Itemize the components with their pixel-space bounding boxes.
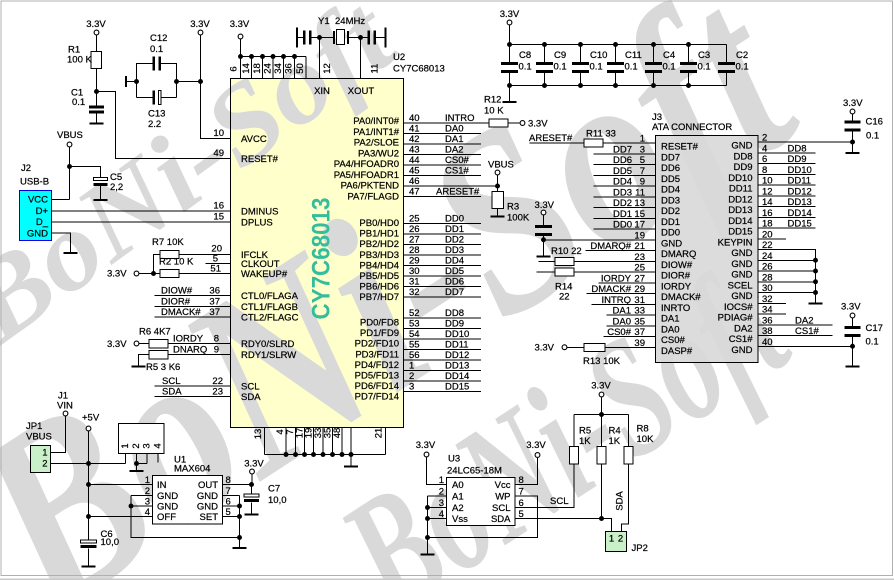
- svg-text:JP2: JP2: [632, 543, 648, 554]
- svg-text:U3: U3: [448, 454, 460, 465]
- resistor R13: [584, 343, 605, 351]
- resistor R5 1K: [570, 447, 579, 465]
- wire cap bank to ground: [509, 86, 511, 102]
- wire R11 to J3 pin1: [603, 142, 656, 144]
- svg-text:R7 10K: R7 10K: [152, 237, 184, 248]
- wire U1 pin6 GND right: [223, 505, 240, 507]
- svg-text:1K: 1K: [609, 436, 621, 447]
- page bottom edge line: [0, 578, 894, 580]
- svg-text:10,0: 10,0: [268, 495, 287, 506]
- junction dots C4: [651, 42, 656, 47]
- junction dots bottom rail: [284, 452, 289, 457]
- wire C15 to pin19 node: [543, 236, 545, 240]
- svg-text:24LC65-18M: 24LC65-18M: [447, 466, 502, 477]
- junction +5V/OFF: [86, 514, 91, 519]
- ground below R3: [491, 216, 505, 218]
- wire crystal to XOUT node: [349, 37, 368, 39]
- pin box lines top: [251, 57, 253, 79]
- svg-text:R10 22: R10 22: [551, 246, 582, 257]
- svg-text:CY7C68013: CY7C68013: [308, 198, 336, 320]
- svg-text:R5: R5: [579, 426, 591, 437]
- resistor R4 1K: [597, 447, 606, 465]
- svg-text:PA6/PKTEND: PA6/PKTEND: [341, 181, 400, 192]
- svg-text:DD9: DD9: [733, 162, 752, 173]
- svg-text:PA1/INT1#: PA1/INT1#: [353, 127, 399, 138]
- svg-text:CS1#: CS1#: [729, 334, 753, 345]
- svg-text:R8: R8: [637, 424, 649, 435]
- wire R10 to J3 pin23: [574, 260, 656, 262]
- svg-text:DD11: DD11: [788, 176, 812, 187]
- wire U2 pin32 stub net DD7: [404, 296, 482, 298]
- svg-text:0.1: 0.1: [736, 62, 749, 73]
- capacitor C6 polarized: [81, 540, 97, 543]
- wire right cap to ground: [376, 37, 384, 39]
- svg-text:SCL: SCL: [550, 496, 568, 507]
- wire loop to 3.3V rail: [177, 81, 201, 83]
- wire U2 pin28 stub net DD3: [404, 254, 482, 256]
- wire U1 pin7 GND right: [223, 495, 240, 497]
- svg-text:C12: C12: [150, 33, 167, 44]
- svg-text:DMARQ: DMARQ: [661, 249, 696, 260]
- svg-text:C16: C16: [866, 117, 883, 128]
- svg-text:DD2: DD2: [613, 198, 632, 209]
- svg-text:DD5: DD5: [445, 266, 464, 277]
- ground below pin22 rail: [809, 303, 823, 305]
- svg-text:CS0#: CS0#: [661, 335, 685, 346]
- svg-text:R5 3 K6: R5 3 K6: [146, 362, 180, 373]
- svg-text:PB3/HD3: PB3/HD3: [359, 250, 399, 261]
- svg-text:2: 2: [42, 459, 47, 470]
- svg-text:R11 33: R11 33: [586, 129, 616, 140]
- svg-text:37: 37: [209, 297, 220, 308]
- wire U3 pin4 Vss: [428, 518, 447, 520]
- svg-text:SCEL: SCEL: [728, 280, 753, 291]
- wire 3.3V to R1: [96, 35, 98, 52]
- wire U1 pin3 GND left: [131, 505, 153, 507]
- wire R13 to J3 pin39: [605, 346, 656, 348]
- wire J3 pin33 net DA1: [607, 314, 656, 316]
- resistor R2: [160, 270, 179, 278]
- svg-text:DA1: DA1: [445, 134, 463, 145]
- wire rail to R4: [601, 415, 603, 447]
- wire JP1 pin2 to conn pin1: [51, 463, 126, 465]
- capacitor C10: [580, 45, 582, 63]
- net DIOW# wire to pin36: [155, 295, 231, 297]
- svg-text:DD3: DD3: [445, 245, 464, 256]
- wire R7 to U2 IFCLK pin20: [179, 254, 231, 256]
- wire J3 pin7 net DD5: [594, 174, 656, 176]
- capacitor right crystal load: [367, 31, 370, 45]
- junction C16/pin2: [850, 140, 855, 145]
- wire C12/C13 loop: [137, 64, 153, 98]
- wire J3 pin13 net DD2: [594, 207, 656, 209]
- ground below 4pin connector: [130, 470, 144, 472]
- capacitor C2: [726, 45, 728, 63]
- svg-text:OUT: OUT: [198, 480, 218, 491]
- junction dots VCC rail: [238, 54, 243, 59]
- wire up to R7: [154, 255, 161, 274]
- wire U2 pin30 stub net DD5: [404, 275, 482, 277]
- wire J3 pin14 net DD13: [758, 206, 816, 208]
- svg-text:1: 1: [439, 475, 444, 486]
- wire J3 pin32 stub: [758, 302, 786, 304]
- wire U1 OFF to +5V rail: [89, 516, 153, 518]
- wire J3 pin9 net DD4: [594, 185, 656, 187]
- svg-text:14: 14: [241, 63, 252, 74]
- svg-text:31: 31: [409, 277, 420, 288]
- svg-text:46: 46: [409, 176, 420, 187]
- ground below C1: [90, 123, 104, 125]
- svg-text:PB1/HD1: PB1/HD1: [359, 229, 399, 240]
- wire 3.3V to pullup rail: [601, 397, 603, 415]
- U2 bottom pin 13 stub: [264, 428, 266, 455]
- net DMACK# wire to pin38: [155, 316, 231, 318]
- junction VBUS/R3 on pin46: [495, 184, 500, 189]
- svg-text:DD14: DD14: [728, 216, 752, 227]
- wire U2 pin3 stub net DD15: [404, 391, 482, 393]
- wire ground to left cap: [297, 37, 304, 39]
- svg-text:54: 54: [409, 329, 420, 340]
- svg-text:0.1: 0.1: [866, 337, 879, 348]
- svg-text:DD4: DD4: [613, 177, 632, 188]
- svg-text:3.3V: 3.3V: [526, 440, 546, 451]
- ground below C15: [537, 256, 551, 258]
- wire gnd jog to WP: [428, 496, 538, 538]
- junction loop right: [174, 79, 179, 84]
- junction pin26 rail: [813, 269, 818, 274]
- wire U2 pin27 stub net DD2: [404, 244, 482, 246]
- capacitor C13 polarized: [153, 91, 156, 105]
- wire J3 pin6 net DD9: [758, 163, 816, 165]
- wire R4 to SDA row: [601, 464, 603, 519]
- svg-text:CS1#: CS1#: [795, 326, 819, 337]
- svg-text:10: 10: [213, 128, 224, 139]
- svg-text:Y1: Y1: [318, 16, 330, 27]
- wire J3 pin29 net DMACK#: [587, 293, 656, 295]
- svg-text:U2: U2: [393, 52, 405, 63]
- terminal +5V: [86, 426, 91, 431]
- svg-text:9: 9: [214, 345, 219, 356]
- resistor R5 3K6: [149, 351, 168, 360]
- svg-text:DIOW#: DIOW#: [661, 260, 693, 271]
- svg-text:3.3V: 3.3V: [843, 98, 863, 109]
- wire VBUS down to J2 VCC: [69, 147, 71, 200]
- svg-text:DASP#: DASP#: [661, 346, 693, 357]
- svg-text:CTL0/FLAGA: CTL0/FLAGA: [241, 291, 299, 302]
- junction pin24 rail: [813, 258, 818, 263]
- wire XOUT to U2 pin11: [360, 38, 362, 79]
- junction on AVCC rail: [198, 79, 203, 84]
- wire U2 pin44 stub net CS0#: [404, 164, 482, 166]
- svg-text:GND: GND: [157, 502, 178, 513]
- wire J3 pin22 to ground rail: [758, 250, 816, 303]
- wire 3.3V to R13: [567, 346, 584, 348]
- svg-text:DD12: DD12: [445, 350, 469, 361]
- svg-text:DD10: DD10: [728, 173, 752, 184]
- svg-text:SDA: SDA: [162, 387, 182, 398]
- svg-text:3.3V: 3.3V: [190, 19, 210, 30]
- svg-text:R3: R3: [507, 202, 519, 213]
- svg-text:IORDY: IORDY: [173, 334, 204, 345]
- svg-text:DD0: DD0: [445, 214, 464, 225]
- svg-text:KEYPIN: KEYPIN: [718, 237, 753, 248]
- svg-text:2: 2: [131, 443, 142, 448]
- wire node to ground: [852, 142, 854, 152]
- svg-text:0.1: 0.1: [698, 62, 711, 73]
- svg-text:RESET#: RESET#: [661, 142, 699, 153]
- capacitor C12: [153, 57, 156, 71]
- svg-text:DD8: DD8: [788, 143, 807, 154]
- svg-text:3.3V: 3.3V: [244, 459, 264, 470]
- wire U2 pin45 stub net CS1#: [404, 175, 482, 177]
- svg-text:DD8: DD8: [733, 151, 752, 162]
- capacitor C11: [615, 45, 617, 63]
- svg-text:0.1: 0.1: [590, 62, 603, 73]
- connector JP2 body: [606, 532, 627, 552]
- ground left crystal cap: [296, 28, 298, 48]
- svg-text:XOUT: XOUT: [348, 86, 375, 97]
- svg-text:DD10: DD10: [788, 165, 812, 176]
- wire U2 pin31 stub net DD6: [404, 286, 482, 288]
- capacitor C4: [653, 45, 655, 63]
- junction R7/R2 feed: [151, 271, 156, 276]
- svg-text:SCL: SCL: [492, 503, 510, 514]
- svg-text:DD10: DD10: [445, 329, 469, 340]
- svg-text:GND: GND: [731, 345, 752, 356]
- svg-text:C2: C2: [736, 50, 748, 61]
- wire U3 pin3 A2: [428, 507, 447, 509]
- resistor R12: [489, 119, 508, 127]
- svg-text:RDY0/SLRD: RDY0/SLRD: [241, 339, 294, 350]
- svg-text:R6 4K7: R6 4K7: [139, 327, 171, 338]
- svg-text:PB5/HD5: PB5/HD5: [359, 271, 399, 282]
- junction pin28 rail: [813, 279, 818, 284]
- svg-text:CTL1/FLAGB: CTL1/FLAGB: [241, 302, 298, 313]
- wire 3.3V to C15: [543, 215, 545, 225]
- terminal J1 VIN: [63, 411, 68, 416]
- svg-text:OFF: OFF: [157, 512, 176, 523]
- wire C1 to ground: [96, 113, 98, 122]
- svg-text:C7: C7: [268, 484, 280, 495]
- svg-text:DMACK#: DMACK#: [661, 292, 701, 303]
- svg-text:R2 10 K: R2 10 K: [159, 257, 194, 268]
- ground below U3: [421, 554, 435, 556]
- svg-text:DD7: DD7: [661, 152, 680, 163]
- svg-text:CY7C68013: CY7C68013: [393, 64, 445, 75]
- svg-text:SDA: SDA: [241, 392, 261, 403]
- svg-text:PA4/HFOADR0: PA4/HFOADR0: [334, 159, 399, 170]
- svg-text:DIOR#: DIOR#: [161, 297, 191, 308]
- svg-text:DA2: DA2: [795, 315, 813, 326]
- wire J3 pin12 net DD12: [758, 195, 816, 197]
- wire R14 to J3 pin25: [574, 271, 656, 273]
- ground below J2: [64, 252, 78, 254]
- ground below C16 node: [846, 152, 860, 154]
- svg-text:1: 1: [120, 443, 131, 448]
- wire C7 to ground: [251, 502, 253, 513]
- wire U1 right gnd vertical: [239, 496, 241, 548]
- wire J3 pin11 net DD3: [594, 196, 656, 198]
- svg-text:DD3: DD3: [661, 195, 680, 206]
- svg-text:25: 25: [409, 214, 420, 225]
- svg-text:VIN: VIN: [57, 401, 73, 412]
- svg-text:IOCS#: IOCS#: [724, 302, 753, 313]
- wire 3.3V to R6: [139, 343, 149, 345]
- wire left cap to XIN node: [312, 37, 334, 39]
- svg-text:1: 1: [42, 448, 47, 459]
- svg-text:1: 1: [640, 134, 645, 145]
- wire rail to ground: [350, 455, 352, 466]
- svg-text:DD15: DD15: [788, 219, 812, 230]
- svg-text:3.3V: 3.3V: [534, 343, 554, 354]
- svg-text:0.1: 0.1: [519, 62, 532, 73]
- svg-text:XIN: XIN: [314, 86, 330, 97]
- wire U2 pin42 stub net DA1: [404, 143, 482, 145]
- svg-text:24: 24: [263, 63, 274, 74]
- svg-text:DD5: DD5: [613, 166, 632, 177]
- connector J3 ATA body: [656, 136, 759, 363]
- svg-text:DA2: DA2: [734, 323, 752, 334]
- svg-text:3.3V: 3.3V: [534, 200, 554, 211]
- wire J3 pin2 GND to C16 node: [758, 141, 853, 143]
- wire 3.3V to rail: [509, 25, 511, 45]
- svg-text:0.1: 0.1: [663, 62, 676, 73]
- svg-text:D_: D_: [36, 217, 49, 228]
- ground below cap bank: [503, 101, 517, 103]
- svg-text:DD12: DD12: [788, 186, 812, 197]
- resistor R3: [492, 192, 504, 209]
- svg-text:MAX604: MAX604: [174, 464, 210, 475]
- svg-text:DD13: DD13: [445, 361, 469, 372]
- ground below C5: [94, 199, 108, 201]
- svg-text:0.1: 0.1: [625, 62, 638, 73]
- svg-text:28: 28: [409, 245, 420, 256]
- wire U2 pin56 stub net DD12: [404, 359, 482, 361]
- svg-text:PD2/FD10: PD2/FD10: [355, 339, 399, 350]
- svg-text:2: 2: [409, 371, 414, 382]
- svg-text:18: 18: [252, 63, 263, 74]
- svg-text:GND: GND: [197, 502, 218, 513]
- wire J3 pin27 net IORDY: [599, 282, 656, 284]
- svg-text:55: 55: [409, 340, 420, 351]
- svg-text:DD9: DD9: [445, 319, 464, 330]
- wire U2 pin46 stub: [404, 185, 498, 187]
- wire J2 D+ to U2 pin16: [52, 210, 231, 212]
- svg-text:VCC: VCC: [28, 195, 48, 206]
- svg-text:44: 44: [409, 155, 420, 166]
- svg-text:IORDY: IORDY: [661, 281, 692, 292]
- svg-text:10,0: 10,0: [101, 537, 120, 548]
- svg-text:PDIAG#: PDIAG#: [718, 313, 754, 324]
- svg-text:PB0/HD0: PB0/HD0: [359, 218, 399, 229]
- wire 3.3V to R2/R7: [139, 273, 160, 275]
- U2 bottom pin box lines: [285, 428, 287, 455]
- svg-text:100K: 100K: [507, 213, 530, 224]
- svg-text:J2: J2: [21, 163, 31, 174]
- wire 3.3V to OUT node: [251, 474, 253, 485]
- svg-text:36: 36: [284, 63, 295, 74]
- wire U1 pin2 GND left: [131, 495, 153, 497]
- 4pin pin3 stub: [146, 454, 148, 464]
- connector 4pin body: [119, 424, 165, 454]
- svg-text:37: 37: [209, 307, 220, 318]
- svg-text:RDY1/SLRW: RDY1/SLRW: [241, 350, 296, 361]
- svg-text:DD4: DD4: [661, 185, 680, 196]
- capacitor C1: [89, 106, 104, 109]
- wire pin2-pin3 link: [137, 463, 148, 465]
- svg-text:SCL: SCL: [241, 382, 259, 393]
- wire U2 pin40 stub net INTRO: [404, 122, 490, 124]
- svg-text:PB2/HD2: PB2/HD2: [359, 239, 399, 250]
- ground below R5: [132, 366, 146, 368]
- svg-text:IORDY: IORDY: [601, 273, 632, 284]
- wire J3 pin18 net DD15: [758, 227, 816, 229]
- svg-text:DIOW#: DIOW#: [161, 286, 193, 297]
- wire J3 pin10 net DD11: [758, 184, 816, 186]
- svg-text:23: 23: [212, 387, 223, 398]
- junction dots C3: [686, 42, 691, 47]
- svg-text:DD5: DD5: [661, 174, 680, 185]
- net SCL wire to pin22: [155, 385, 231, 387]
- svg-text:4: 4: [153, 443, 164, 448]
- svg-text:R13 10K: R13 10K: [583, 356, 621, 367]
- svg-text:8: 8: [214, 334, 219, 345]
- junction XIN node: [317, 35, 322, 40]
- junction VBUS/C5: [67, 164, 72, 169]
- svg-text:DD8: DD8: [445, 308, 464, 319]
- wire ground to loop node: [126, 81, 137, 83]
- svg-text:C3: C3: [698, 50, 710, 61]
- wire rail to R5: [573, 415, 575, 447]
- svg-text:27: 27: [409, 235, 420, 246]
- junction pin5 gnd: [237, 514, 242, 519]
- wire J3 pin21 net DMARQ#: [586, 250, 656, 252]
- svg-text:GND: GND: [731, 291, 752, 302]
- wire U1 OUT to 3.3V/C7: [223, 484, 252, 486]
- svg-text:0.1: 0.1: [150, 44, 163, 55]
- svg-text:41: 41: [409, 124, 420, 135]
- svg-text:0.1: 0.1: [554, 62, 567, 73]
- svg-text:GND: GND: [731, 270, 752, 281]
- resistor R6: [149, 340, 168, 349]
- svg-text:DD15: DD15: [728, 227, 752, 238]
- wire J3 pin36 net DA2: [758, 324, 833, 326]
- svg-text:36: 36: [209, 286, 220, 297]
- svg-text:DPLUS: DPLUS: [241, 218, 273, 229]
- capacitor C5 polarized: [94, 178, 108, 181]
- svg-text:PD7/FD14: PD7/FD14: [355, 392, 399, 403]
- ground below U2: [344, 466, 358, 468]
- wire R5 to U2 RDY1 pin9: [168, 354, 231, 356]
- svg-text:0.1: 0.1: [72, 97, 85, 108]
- svg-text:DMINUS: DMINUS: [241, 207, 278, 218]
- capacitor C8: [509, 45, 511, 63]
- svg-text:CTL2/FLAGC: CTL2/FLAGC: [241, 313, 299, 324]
- junction dots C11: [613, 42, 618, 47]
- wire U2 pin26 stub net DD1: [404, 233, 482, 235]
- junction gnd loop: [237, 535, 242, 540]
- svg-text:PA5/HFOADR1: PA5/HFOADR1: [334, 170, 399, 181]
- wire J3 pin20 stub: [758, 238, 786, 240]
- capacitor C9: [544, 45, 546, 63]
- wire rail to R8: [628, 415, 630, 447]
- svg-text:DD15: DD15: [445, 382, 469, 393]
- wire 3.3V to VCC pin rail: [240, 39, 242, 57]
- wire 3.3V to C17: [852, 318, 854, 326]
- svg-text:INTRQ: INTRQ: [601, 295, 631, 306]
- svg-text:RESET#: RESET#: [241, 154, 279, 165]
- wire J2 VCC to VBUS: [52, 199, 70, 201]
